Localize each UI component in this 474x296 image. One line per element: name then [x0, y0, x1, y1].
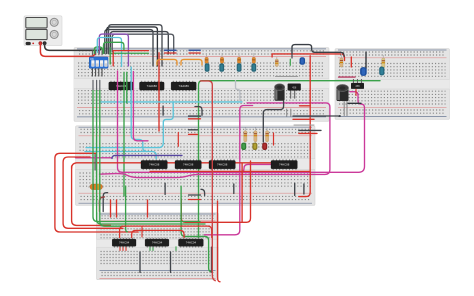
IC U11 74HC04: [147, 238, 165, 248]
resistor R9 horizontal: [88, 184, 104, 190]
wire crimson y77: [339, 76, 355, 78]
wire red x356: [355, 90, 357, 96]
resistor R5: [276, 57, 278, 67]
LED teal x=207.1: [205, 63, 210, 71]
wire red loop3 bottom: [72, 166, 111, 225]
wire magenta m1: [118, 71, 365, 172]
resistor x=239.1: [238, 53, 240, 58]
wire red bus L2: [132, 230, 184, 237]
wire black jmp b4a: [139, 252, 141, 272]
wire dark arc D1: [105, 30, 153, 66]
wire cyan c2: [131, 67, 156, 159]
power supply PS1: [24, 16, 62, 46]
wire green g3: [100, 91, 125, 227]
wire red v x178: [177, 133, 179, 147]
wire red tall x310: [299, 56, 310, 197]
wire red rh2: [299, 132, 317, 134]
LED blue D5: [300, 57, 306, 65]
wire black pair3: [189, 194, 201, 196]
wire dark arc D5: [112, 34, 174, 54]
cap legs: [343, 102, 345, 116]
IC U9 458: [351, 79, 364, 89]
wire magenta m5: [235, 164, 271, 172]
capacitor C2: [337, 85, 349, 102]
wire PSU black lead: [45, 44, 101, 51]
wire red v3: [147, 200, 149, 217]
LED x=243.7: [241, 143, 246, 150]
wire green g6: [181, 186, 211, 271]
IC U8 74HC08: [273, 159, 296, 170]
wire red loop2: [63, 157, 123, 228]
wire dark arc D3: [109, 25, 162, 66]
svg-text:458: 458: [355, 85, 360, 88]
wire grey seg y76.4: [276, 75, 298, 77]
wire black v x366: [365, 52, 367, 69]
wire green g8: [126, 186, 128, 232]
wire red v x113: [112, 52, 114, 66]
svg-text:74HC86: 74HC86: [147, 84, 158, 88]
wire black jmp b4b: [170, 252, 172, 272]
IC U5 74HC08: [143, 159, 166, 170]
wire grey w2: [96, 80, 98, 90]
wire black j1: [162, 106, 164, 115]
wire purple arc: [99, 34, 128, 66]
svg-text:74HC08: 74HC08: [183, 163, 194, 167]
wire green g2: [97, 91, 205, 225]
wire blue jumper 2: [189, 49, 200, 51]
IC U1 74HC86: [111, 81, 131, 92]
breadboard B2 top right small: [335, 49, 450, 120]
breadboard B1 top large: [74, 48, 329, 122]
IC U2 74HC86: [142, 81, 162, 92]
wire black pair1: [189, 115, 201, 117]
wire black y103: [348, 102, 361, 104]
wire cyan arc: [97, 38, 121, 67]
breadboard B4 bottom small: [97, 213, 219, 280]
wire green g5: [126, 72, 128, 103]
wire red v1: [110, 200, 112, 217]
wire red jumper 2: [189, 52, 200, 54]
wire dark arc D4: [110, 32, 168, 54]
wire red pair2: [189, 133, 198, 135]
wire red stub y105.8: [300, 105, 311, 107]
svg-text:74HC08: 74HC08: [217, 163, 228, 167]
wire red loop1: [55, 153, 138, 232]
svg-text:74HC04: 74HC04: [152, 241, 163, 245]
wire blue jumper 1: [165, 49, 177, 51]
wire black bh1: [293, 115, 340, 117]
red drop: [141, 226, 143, 237]
wire violet y155.4: [112, 155, 182, 158]
wire red x272 short: [273, 133, 275, 145]
svg-text:74HC86: 74HC86: [179, 84, 190, 88]
wire green long: [199, 81, 381, 238]
wire grey hook bottomleft: [103, 193, 107, 212]
wire red A (181 to 248 U): [181, 161, 250, 222]
wire red v x159: [158, 53, 160, 131]
wire red rail seg y50.6: [113, 50, 149, 52]
wire grey w1: [92, 80, 94, 90]
wire green g4: [123, 72, 125, 196]
wire red bus L1: [120, 226, 212, 237]
IC U3 74HC86: [173, 81, 193, 92]
wire green g1: [93, 91, 200, 222]
svg-text:74HC08: 74HC08: [149, 163, 160, 167]
wire cyan c1: [86, 102, 173, 148]
svg-text:74HC04: 74HC04: [186, 241, 197, 245]
wire red rh1: [293, 118, 314, 120]
svg-text:74HC04: 74HC04: [119, 241, 130, 245]
IC U6 74HC08: [177, 159, 200, 170]
wire green v x110: [109, 48, 111, 64]
wire cyan cB: [85, 151, 147, 153]
svg-text:458: 458: [292, 86, 297, 89]
IC U10 74HC04: [114, 238, 132, 248]
wire grey w3: [99, 80, 101, 90]
wire black L j4: [201, 189, 205, 195]
wire crimson long x212: [200, 81, 215, 281]
wire red bundle y171.4: [150, 170, 310, 172]
svg-text:74HC08: 74HC08: [279, 163, 290, 167]
wire green arc B: [104, 42, 124, 53]
wire dark v x292: [291, 54, 293, 59]
resistor above LED x=267.1: [266, 128, 268, 143]
wire black jmp b4c: [211, 247, 213, 272]
resistor above LED x=245.3: [244, 128, 246, 143]
LED blue D6: [360, 67, 367, 76]
cap legs grey: [286, 109, 288, 116]
wire red edge2: [218, 201, 221, 282]
wire red B x242: [241, 164, 243, 222]
wire grey y125: [294, 124, 314, 126]
resistor x=206.6: [206, 53, 208, 58]
wire red pair3: [189, 199, 201, 201]
wire black hook to R: [263, 101, 283, 142]
IC U12 74HC04: [181, 238, 202, 248]
wire black bh2: [299, 129, 321, 131]
IC U4 458: [288, 84, 301, 99]
wire green short x290: [289, 59, 291, 65]
wire grey S x236: [236, 81, 240, 101]
LED teal D7: [379, 67, 384, 76]
wire red v2: [116, 200, 118, 217]
wire magenta m2: [133, 72, 148, 141]
wire green arc small: [94, 47, 102, 54]
resistor x=222.0: [221, 53, 223, 58]
resistor x=253.8: [253, 53, 255, 58]
wire green rail seg y53.2: [111, 52, 149, 54]
red hooks under IC1: [120, 247, 126, 251]
wire black v x234: [233, 184, 235, 194]
wire red v x351: [350, 57, 352, 67]
wire orange staple 2: [181, 59, 202, 65]
LED x=264.7: [262, 143, 267, 150]
wire black v x304: [303, 184, 305, 194]
wire dark v x95: [94, 155, 96, 171]
wire red pair1: [189, 118, 201, 120]
wire maroon hook: [99, 197, 104, 212]
wire magenta y157.7: [76, 157, 113, 159]
wire PSU red lead: [40, 44, 94, 57]
IC U7 74HC08: [211, 159, 234, 170]
wire cyan row j: [100, 101, 242, 103]
green hooks under IC2: [150, 247, 176, 251]
capacitor C1: [275, 84, 285, 101]
resistor above LED x=255.4: [254, 128, 256, 143]
LED teal x=239.1: [237, 63, 242, 71]
wire magenta m3: [205, 106, 253, 235]
resistor R11: [382, 55, 384, 70]
wire black loop to B2: [292, 45, 344, 57]
LED teal x=221.7: [219, 63, 224, 71]
wire red jumper 1: [165, 52, 177, 54]
wire black j3: [164, 183, 166, 194]
wire black v x295: [294, 183, 296, 195]
wire red rail feed: [272, 54, 344, 61]
LED teal x=253.8: [251, 63, 256, 71]
wire black pair2: [189, 129, 198, 131]
DIP switch S1: [89, 50, 108, 76]
wire dark arc D2: [107, 27, 158, 66]
wire red loop3 top leg y162.8: [72, 163, 271, 169]
resistor R10: [340, 54, 342, 68]
wire orange staple 1: [157, 59, 177, 65]
breadboard B3 middle large: [76, 126, 316, 206]
wire black hook j2: [195, 107, 202, 116]
wire magenta m4: [100, 103, 330, 178]
LED x=254.9: [252, 143, 257, 150]
